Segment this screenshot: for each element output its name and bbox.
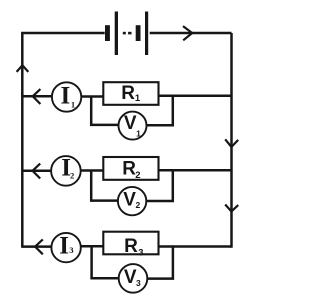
arrow current up (left wire)	[17, 65, 29, 72]
svg-text:V: V	[124, 267, 137, 288]
arrow current right (top wire)	[183, 26, 192, 40]
svg-text:R: R	[124, 236, 138, 257]
svg-text:1: 1	[135, 93, 141, 104]
voltmeter V3	[119, 264, 148, 293]
wire branch3 right	[159, 245, 232, 248]
wire top right segment	[150, 32, 232, 35]
wire V2 loop left	[91, 170, 118, 200]
svg-text:R: R	[122, 158, 136, 179]
svg-text:1: 1	[136, 128, 141, 138]
svg-text:V: V	[124, 113, 137, 134]
svg-text:2: 2	[135, 170, 140, 181]
svg-text:2: 2	[136, 200, 141, 210]
svg-text:3: 3	[138, 247, 143, 258]
wire branch1 left	[22, 95, 52, 98]
wire branch1 mid	[81, 95, 104, 98]
resistor R2	[103, 157, 158, 180]
arrow current left branch1	[33, 89, 41, 104]
wire branch2 right	[159, 169, 232, 172]
ammeter I3	[51, 233, 80, 262]
voltmeter V1	[119, 112, 147, 140]
wire V1 loop left	[91, 96, 118, 125]
wire branch3 mid	[81, 245, 104, 248]
wire V3 loop right	[147, 245, 173, 278]
wire branch2 left	[22, 170, 51, 173]
wire branch1 right	[159, 94, 232, 97]
svg-text:V: V	[123, 189, 136, 210]
svg-text:R: R	[121, 83, 135, 104]
battery B1	[105, 12, 148, 56]
ammeter I1	[52, 82, 81, 111]
wire V2 loop right	[146, 169, 173, 201]
resistor R3	[103, 232, 158, 255]
ammeter I2	[51, 156, 81, 186]
wire V1 loop right	[146, 95, 172, 126]
svg-text:2: 2	[70, 170, 74, 180]
wire top left segment	[22, 33, 104, 96]
arrow current left branch3	[35, 239, 43, 254]
arrow down 1 (right wire)	[225, 139, 238, 147]
wire branch3 left	[22, 245, 51, 248]
wire branch2 mid	[80, 169, 103, 172]
wire left vertical	[21, 93, 24, 248]
svg-text:I: I	[59, 233, 69, 260]
svg-text:3: 3	[69, 245, 73, 255]
svg-text:I: I	[61, 83, 71, 110]
wire V3 loop left	[92, 246, 119, 278]
arrow current left branch2	[33, 164, 41, 179]
arrow down 2 (right wire)	[225, 205, 238, 212]
svg-text:3: 3	[136, 278, 141, 288]
resistor R1	[103, 82, 158, 105]
voltmeter V2	[118, 187, 146, 215]
svg-text:1: 1	[71, 100, 75, 110]
wire right vertical	[230, 33, 233, 248]
